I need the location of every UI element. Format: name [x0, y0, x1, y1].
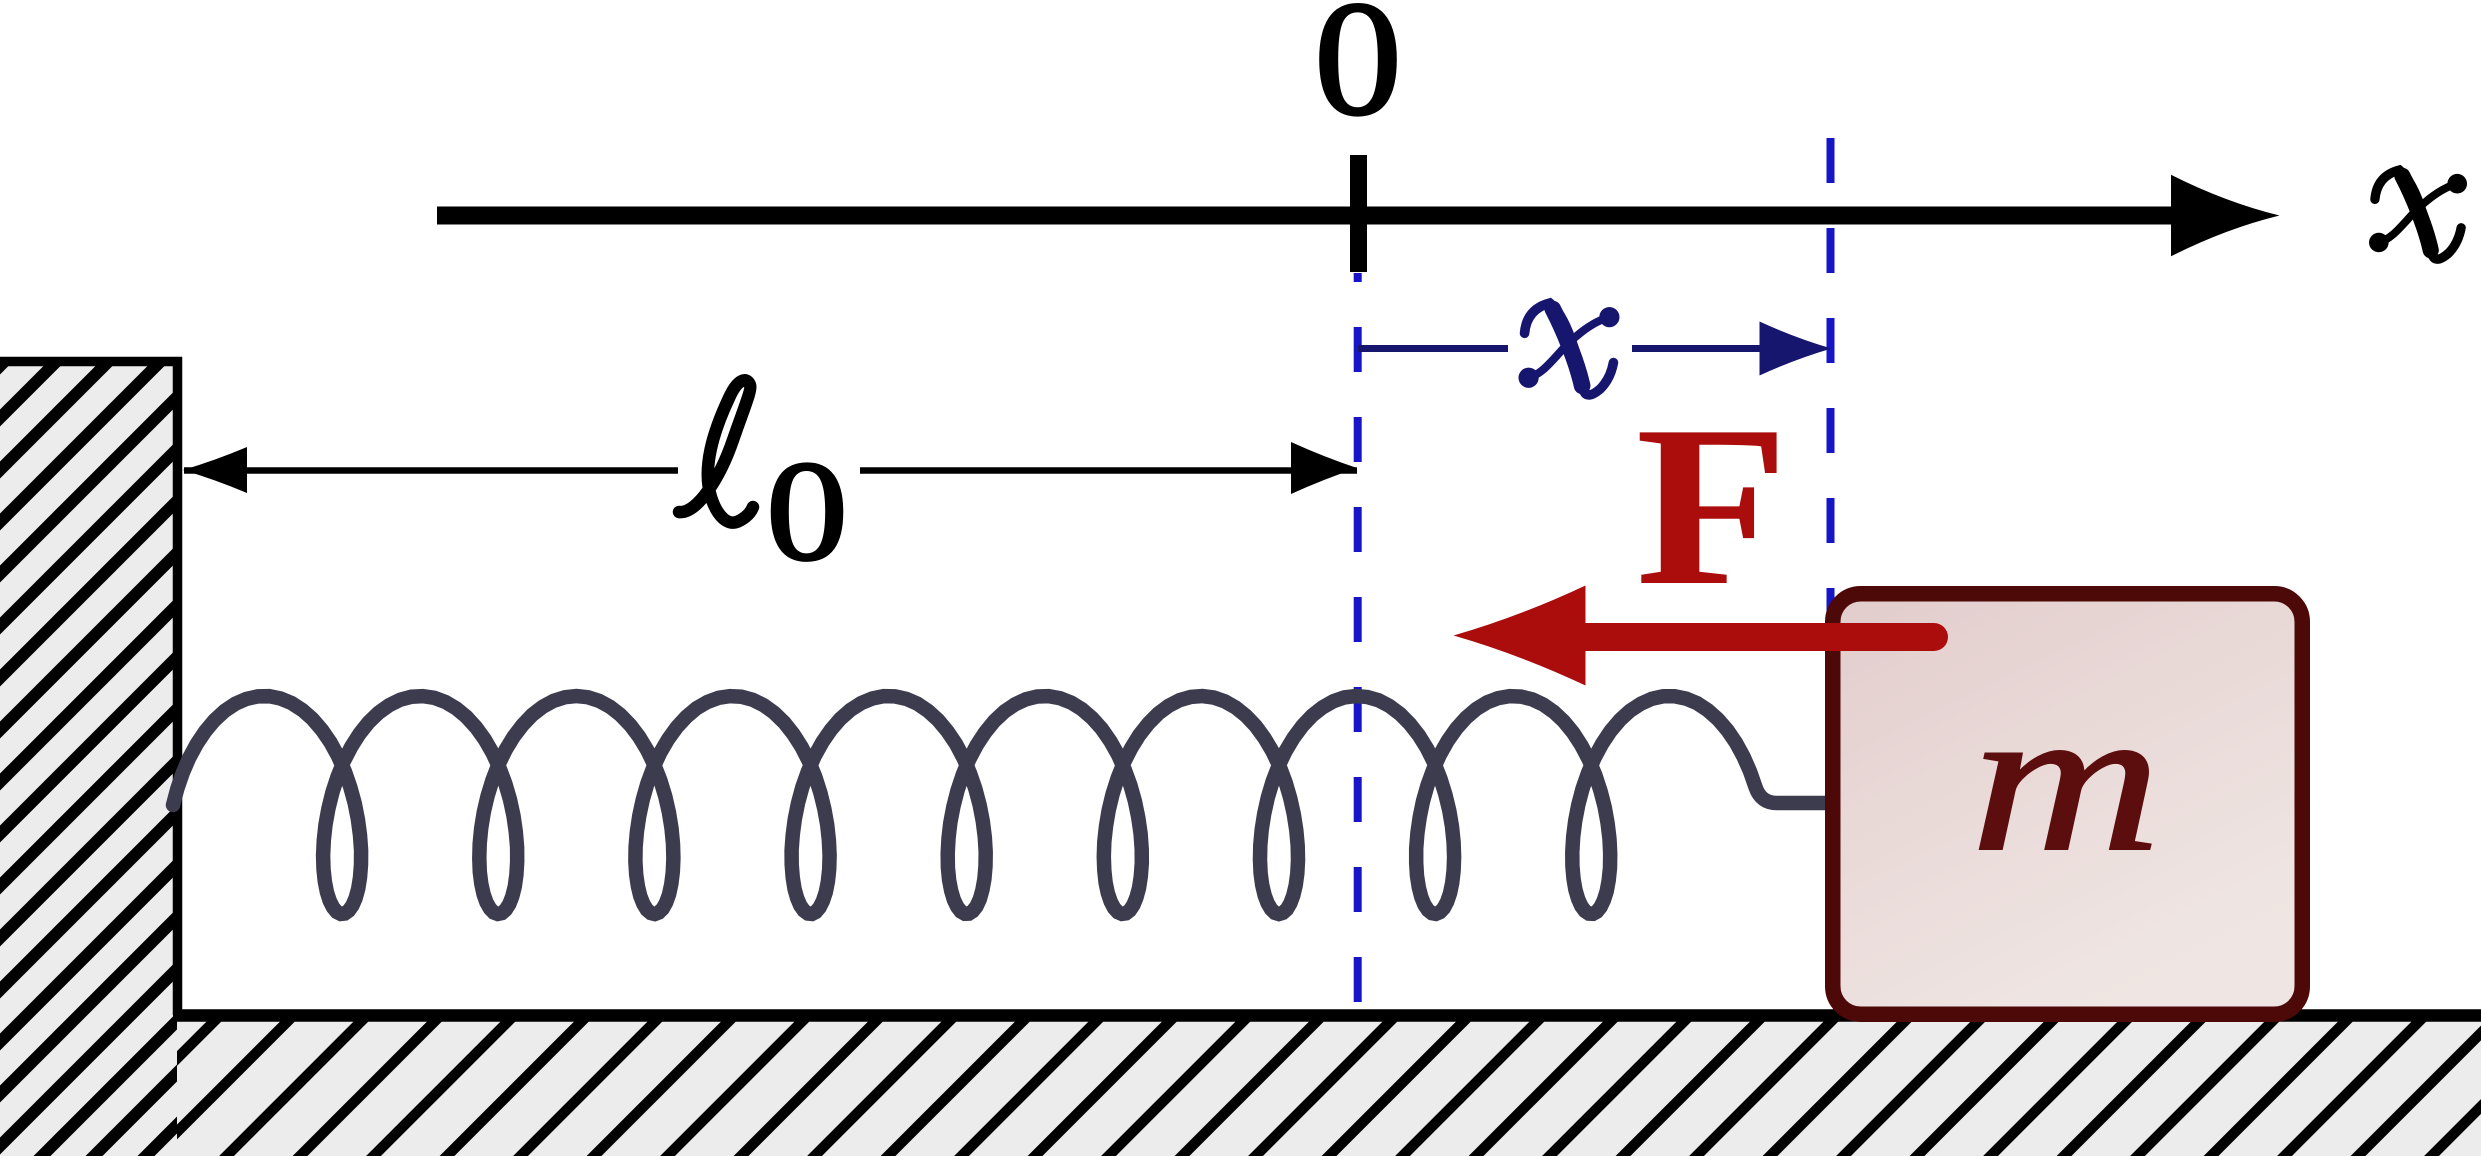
natural length dimension line [184, 467, 1357, 474]
force arrowhead [1454, 586, 1586, 686]
svg-text:F: F [1635, 379, 1788, 633]
wall right edge [173, 357, 183, 1015]
x-axis arrowhead [2171, 175, 2280, 257]
svg-text:0: 0 [1314, 0, 1402, 149]
label ell (script l) [679, 380, 753, 522]
wall (hatched) [0, 357, 177, 1156]
axis label x [2369, 170, 2467, 259]
floor top edge [173, 1009, 2481, 1022]
left arrowhead (at wall) [183, 447, 247, 493]
label x (displacement) [1518, 303, 1619, 395]
x-axis line [437, 207, 2200, 225]
floor (hatched) [177, 1010, 2481, 1156]
dashed guide line at block position [1827, 138, 1835, 1012]
displacement arrowhead [1760, 322, 1832, 376]
displacement dimension line x [1358, 345, 1800, 352]
dashed guide line at x=0 [1354, 273, 1362, 1012]
mass block m [1833, 594, 2303, 1015]
svg-text:m: m [1971, 664, 2162, 894]
right arrowhead (at origin) [1291, 442, 1357, 494]
force arrow F shaft [1560, 623, 1934, 651]
wall top edge [0, 357, 182, 367]
svg-text:0: 0 [766, 432, 848, 591]
axis origin tick [1350, 155, 1367, 272]
spring (coil) [173, 696, 1842, 914]
